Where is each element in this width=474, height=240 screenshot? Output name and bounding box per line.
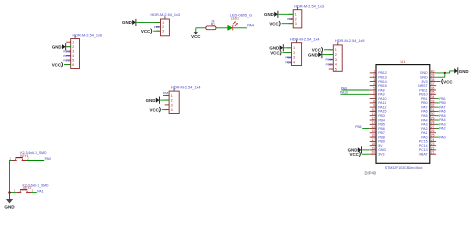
svg-text:PA4: PA4 — [247, 23, 254, 27]
svg-text:HDR-M-2.54_1x3: HDR-M-2.54_1x3 — [294, 5, 324, 9]
svg-text:2: 2 — [293, 51, 295, 55]
ground J1 — [52, 43, 66, 50]
svg-text:LED1: LED1 — [231, 17, 239, 21]
svg-text:VBAT: VBAT — [419, 153, 429, 157]
svg-text:1: 1 — [171, 94, 173, 98]
svg-text:HDR-M-2.54_1x4: HDR-M-2.54_1x4 — [290, 38, 320, 42]
svg-text:3: 3 — [293, 56, 295, 60]
ground J2 — [122, 19, 136, 26]
svg-text:HDR-M-2.54_1x6: HDR-M-2.54_1x6 — [73, 33, 103, 37]
svg-text:GND: GND — [459, 69, 469, 74]
ground J3 — [264, 11, 278, 18]
wire VCC to U1 pin20 — [362, 153, 370, 155]
connector J4 HDR-M-2.54_1x4 — [287, 40, 302, 66]
svg-text:HDR-M-2.54_1x3: HDR-M-2.54_1x3 — [151, 13, 181, 17]
U1 left pin names — [378, 71, 387, 156]
svg-text:2: 2 — [335, 53, 337, 57]
wire U1 PA10 net — [341, 93, 370, 95]
svg-text:PB11: PB11 — [326, 62, 333, 66]
svg-text:1: 1 — [295, 13, 297, 17]
LED LED1 — [228, 21, 238, 30]
svg-text:VCC: VCC — [269, 21, 279, 26]
wire U1 right pin net PA0 — [436, 136, 439, 138]
wire VCC to J4 pin2 — [283, 52, 292, 54]
wire U1 right pin net PB0 — [436, 102, 439, 104]
svg-text:PB6: PB6 — [154, 25, 160, 29]
junction node buttons GND — [8, 191, 10, 193]
svg-text:4: 4 — [293, 61, 295, 65]
svg-text:1: 1 — [293, 46, 295, 50]
svg-text:U1: U1 — [400, 60, 405, 64]
svg-text:1: 1 — [72, 41, 74, 45]
svg-text:3: 3 — [171, 103, 173, 107]
ground J6 — [146, 97, 160, 104]
U1 left pin stubs pins 1-20 — [370, 73, 376, 154]
svg-text:3: 3 — [295, 22, 297, 26]
svg-text:PB6: PB6 — [355, 125, 361, 129]
svg-text:3: 3 — [72, 50, 74, 54]
connector J2 HDR-M-2.54_1x3 — [156, 16, 169, 36]
svg-text:GND: GND — [52, 44, 62, 49]
U1 right pin stubs pins 21-40 — [430, 73, 436, 154]
wire U1 right pin net PB1 — [436, 98, 439, 100]
power VCC U1 left — [350, 152, 361, 157]
wire GND to J2 pin1 — [137, 21, 160, 23]
wire GND to U1 pin19 — [362, 149, 370, 151]
wire KEY1 pin1 down to GND rail — [10, 161, 12, 193]
svg-text:PB10: PB10 — [325, 58, 333, 62]
svg-text:4: 4 — [171, 108, 173, 112]
connector J6 HDR-M-2.54_1x4 — [165, 88, 180, 113]
wire U1 PB6 net — [362, 128, 370, 130]
svg-text:1: 1 — [9, 157, 11, 161]
svg-text:PA0: PA0 — [439, 135, 445, 139]
svg-text:3: 3 — [162, 30, 164, 34]
svg-text:VCC: VCC — [52, 62, 62, 67]
wire GND to J6 pin2 — [160, 99, 169, 101]
power VCC for LED branch — [191, 28, 201, 39]
U1 right pin numbers 40-21 — [431, 69, 435, 154]
svg-text:PA5: PA5 — [287, 17, 293, 21]
svg-text:STM32F103C8Dev.Mod: STM32F103C8Dev.Mod — [385, 166, 423, 170]
svg-text:PB13: PB13 — [63, 49, 71, 53]
svg-text:PA1: PA1 — [37, 189, 43, 193]
svg-text:6: 6 — [72, 63, 74, 67]
wire U1 pin40 GND net — [436, 73, 445, 77]
wire KEY2 pin1 to GND junction — [10, 192, 17, 194]
wire GND to J4 pin1 — [284, 47, 292, 49]
wire U1 right pin net PA5 — [436, 115, 439, 117]
svg-text:2: 2 — [72, 45, 74, 49]
power VCC J6 — [150, 107, 161, 112]
svg-text:VCC: VCC — [270, 50, 280, 55]
ground bottom left — [4, 193, 15, 210]
svg-text:PA10: PA10 — [340, 91, 348, 95]
wire VCC to J3 pin3 — [282, 23, 294, 25]
wire VCC to J2 pin3 — [153, 30, 160, 32]
svg-text:PB14: PB14 — [63, 54, 71, 58]
wire U1 right pin net PA2 — [436, 128, 439, 130]
wire VCC to J1 pin6 — [64, 64, 71, 66]
svg-text:VCC: VCC — [350, 152, 360, 157]
connector J3 HDR-M-2.54_1x3 — [289, 7, 302, 28]
wire U1 right pin net PA7 — [436, 106, 439, 108]
svg-text:PB8: PB8 — [285, 56, 291, 60]
svg-text:2: 2 — [162, 25, 164, 29]
connector J5 HDR-M-2.54_1x5 — [329, 42, 342, 71]
svg-text:GND: GND — [146, 98, 156, 103]
wire KEY2 to PA1 — [31, 192, 37, 194]
svg-text:GND: GND — [122, 20, 132, 25]
wire U1 right pin net PA4 — [436, 119, 439, 121]
svg-text:1: 1 — [162, 21, 164, 25]
U1 right pin names — [418, 71, 428, 156]
svg-text:4: 4 — [72, 54, 74, 58]
wire GND to J5 pin2 — [323, 54, 334, 56]
svg-text:3: 3 — [335, 58, 337, 62]
ground U1 top right — [454, 67, 468, 74]
power VCC J3 — [269, 21, 280, 26]
svg-text:HDR-M-2.54_1x5: HDR-M-2.54_1x5 — [335, 39, 365, 43]
wire U1 pin38 to VCC — [436, 81, 440, 83]
wire VCC to J5 pin1 — [324, 49, 333, 51]
wire VCC to R1 — [196, 27, 206, 29]
connector J1 HDR-M-2.54_1x6 — [66, 36, 79, 69]
wire net to J6 pin1 — [163, 94, 169, 96]
svg-text:2: 2 — [32, 189, 34, 193]
svg-text:PA0: PA0 — [45, 157, 51, 161]
wire GND to J3 pin1 — [279, 13, 294, 15]
svg-text:VCC: VCC — [150, 107, 160, 112]
wire LED1 to PA4 — [233, 27, 247, 29]
svg-text:VCC: VCC — [443, 80, 453, 85]
svg-text:GND: GND — [4, 205, 15, 210]
power VCC J4 — [270, 50, 281, 55]
wire VCC to J6 pin4 — [162, 109, 169, 111]
svg-text:2: 2 — [27, 157, 29, 161]
svg-text:PA8: PA8 — [163, 91, 169, 95]
svg-text:GND: GND — [264, 12, 274, 17]
svg-text:PA2: PA2 — [439, 127, 445, 131]
wire junction to GND symbol — [445, 71, 454, 73]
svg-text:5: 5 — [72, 59, 74, 63]
wire U1 right pin net PA3 — [436, 123, 439, 125]
power VCC J5 — [312, 47, 323, 52]
svg-text:3V3: 3V3 — [378, 153, 384, 157]
svg-text:PB15: PB15 — [63, 58, 71, 62]
wire GND to J1 pin2 — [66, 46, 71, 48]
ground J4 — [269, 44, 283, 51]
svg-text:R1: R1 — [211, 22, 215, 26]
power VCC U1 right — [442, 79, 454, 85]
svg-text:PB9: PB9 — [285, 60, 291, 64]
IC U1 STM32F103C8 DIP40 body — [376, 65, 430, 164]
wire U1 PA9 net — [342, 89, 370, 91]
junction node GND pins 40-39 — [444, 72, 446, 74]
svg-text:1: 1 — [14, 189, 16, 193]
switch KEY1 K2 — [9, 157, 29, 161]
svg-text:1: 1 — [335, 48, 337, 52]
ground J5 — [308, 51, 322, 58]
wire KEY1 to PA0 — [27, 160, 45, 162]
svg-text:20: 20 — [371, 151, 375, 155]
switch KEY2 K2 — [14, 189, 34, 193]
resistor R1 — [206, 26, 216, 30]
power VCC J1 — [52, 62, 63, 67]
svg-text:2: 2 — [171, 99, 173, 103]
U1 left pin numbers 1-20 — [371, 69, 375, 154]
power VCC J2 — [141, 29, 152, 34]
wire U1 right pin net PA6 — [436, 110, 439, 112]
svg-text:VCC: VCC — [191, 34, 201, 39]
svg-text:21: 21 — [431, 151, 435, 155]
svg-text:DIP40: DIP40 — [365, 170, 377, 175]
svg-text:5: 5 — [335, 67, 337, 71]
svg-text:GND: GND — [308, 52, 318, 57]
wire R1 to LED1 — [216, 27, 228, 29]
ground U1 left — [348, 146, 362, 153]
svg-text:4: 4 — [335, 63, 337, 67]
svg-text:HDR-M-2.54_1x4: HDR-M-2.54_1x4 — [171, 86, 201, 90]
svg-text:2: 2 — [295, 17, 297, 21]
svg-text:VCC: VCC — [141, 29, 151, 34]
